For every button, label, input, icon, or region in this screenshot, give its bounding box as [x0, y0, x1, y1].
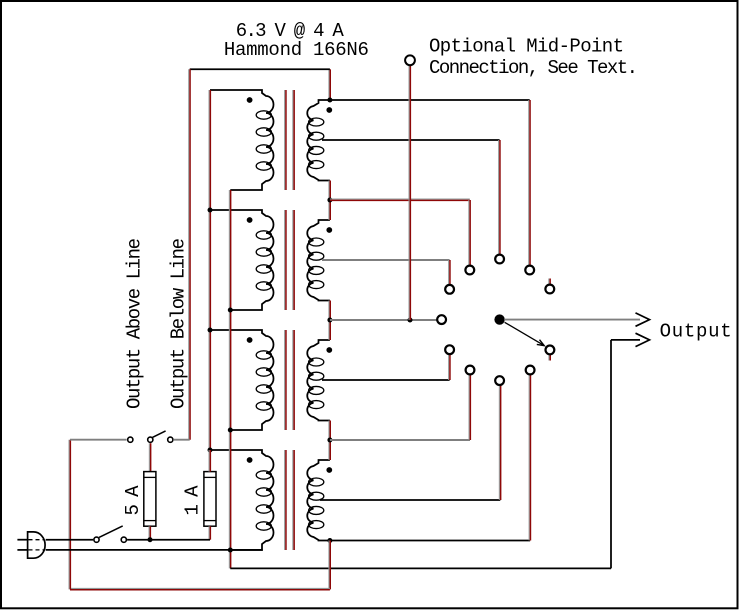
wire output line 2 vertical (x=611)	[610, 340, 612, 569]
transformer T1 secondary polarity dot	[326, 107, 332, 113]
node T1 secondary top junction	[327, 98, 332, 103]
wire output-above-line vertical (x=189.7)	[188, 69, 190, 439]
wire contact stub x=470 lower	[468, 374, 470, 440]
fuse F2 1A body	[204, 472, 216, 527]
terminal optional mid-point connection	[405, 55, 415, 65]
wire neutral line plug to T4	[46, 549, 263, 551]
transformer T3 primary winding loops	[256, 351, 271, 410]
transformer T1 primary polarity dot	[247, 97, 253, 103]
switch SW1 contact right	[121, 537, 126, 542]
transformer T2 primary polarity dot	[247, 217, 253, 223]
wire tap line y=100 (T1 top to contact)	[330, 99, 530, 101]
junction bus-A / T2 primary top	[208, 208, 213, 213]
rotary switch SW3 contact 30deg	[545, 285, 554, 294]
switch SW2 common (to fuse F1)	[148, 437, 153, 442]
svg-text:Output Below Line: Output Below Line	[168, 238, 190, 409]
junction bus-B / T3 primary bottom	[228, 428, 233, 433]
svg-text:Hammond 166N6: Hammond 166N6	[224, 39, 369, 61]
wire hot line switch to fuses	[127, 539, 210, 541]
transformer T4 primary winding	[210, 450, 274, 550]
wire T1 secondary top to top rail	[328, 69, 330, 100]
wire output line 1 (from SW3 common)	[504, 319, 640, 321]
transformer T1 secondary winding loops	[309, 118, 324, 169]
wire below-line vertical (x=70)	[68, 440, 70, 590]
rotary switch SW3 wiper arrow	[505, 322, 545, 345]
wire selector left feed	[70, 439, 127, 441]
rotary switch SW3 common pole	[494, 314, 504, 324]
wire fuse F2 bottom stub	[208, 526, 210, 540]
wire dead-end stub 30-deg contact	[548, 279, 550, 285]
rotary switch SW3 contact 120deg	[465, 266, 474, 275]
transformer T2 core	[285, 210, 295, 310]
transformer T3 secondary winding	[307, 340, 330, 421]
arrow output 2	[636, 333, 650, 346]
switch SW1 contact left	[94, 537, 99, 542]
rotary switch SW3 contact 330deg	[546, 346, 555, 355]
wire contact stub x=529.7	[528, 100, 530, 266]
wire hot line plug to switch SW1	[46, 539, 93, 541]
junction bus-B / T2 primary bottom	[228, 308, 233, 313]
transformer T4 primary polarity dot	[247, 457, 253, 463]
wire fuse F2 top stub	[208, 450, 210, 472]
plug P1 prong bottom hidden	[29, 549, 44, 551]
svg-text:Output: Output	[660, 321, 732, 343]
wire contact stub x=499.6 upper	[498, 140, 500, 255]
transformer T3 secondary winding loops	[309, 358, 324, 409]
wire below-line bottom run y=589.4	[70, 587, 330, 589]
wire dead-end stub 330-deg contact	[548, 355, 550, 361]
svg-text:5 A: 5 A	[122, 485, 144, 516]
rotary switch SW3 contact 150deg	[445, 285, 454, 294]
wire contact stub x=449.6 upper	[448, 260, 450, 285]
transformer T4 secondary winding	[307, 460, 330, 541]
arrow output 1	[636, 313, 650, 326]
wire tap line y=200 (T1/T2 junction)	[330, 198, 470, 200]
wire output line 2 horizontal	[611, 339, 640, 341]
wire fuse F1 bottom stub	[148, 526, 150, 540]
transformer T2 secondary winding loops	[309, 238, 324, 289]
switch SW2 contact left (output below line)	[128, 437, 133, 442]
node T3/T4 secondary junction	[327, 438, 332, 443]
node T4 secondary bottom junction	[327, 538, 332, 543]
wire tap line y=540.5 (T4 bottom)	[330, 540, 530, 542]
node T1/T2 secondary junction	[327, 198, 332, 203]
transformer T3 primary winding	[210, 330, 274, 430]
wire T3-T4 secondary link	[328, 421, 330, 461]
transformer T1 primary winding	[210, 90, 274, 190]
plug P1 prong bottom	[17, 549, 27, 551]
transformer T2 primary winding	[210, 210, 274, 310]
wire T1-T2 secondary link	[328, 181, 330, 221]
transformer T1 core	[285, 90, 295, 190]
switch SW2 contact right (output above line)	[168, 437, 173, 442]
svg-text:Output Above Line: Output Above Line	[124, 238, 146, 409]
junction bus-A / T3 primary top	[208, 328, 213, 333]
wire tap line y=320 (mid-point to contact)	[330, 319, 438, 321]
svg-text:Connection, See Text.: Connection, See Text.	[429, 57, 638, 79]
rotary switch SW3 contact 210deg	[445, 345, 454, 354]
wire tap line y=500 (T4 mid tap)	[320, 499, 500, 501]
wire primary return bus (maroon vertical x=230.3)	[228, 190, 230, 568]
wire contact stub x=530.1 lower	[528, 374, 530, 540]
wire primary feed bus (maroon vertical x=210)	[208, 90, 210, 450]
transformer T3 core	[285, 330, 295, 430]
rotary switch SW3 contact 240deg	[466, 366, 475, 375]
junction mid-point terminal wire	[408, 318, 413, 323]
wire tap line y=380 (T3 mid tap)	[322, 379, 450, 381]
wire contact stub x=449.6 lower	[448, 354, 450, 380]
transformer T4 secondary winding loops	[309, 478, 324, 529]
svg-text:Optional Mid-Point: Optional Mid-Point	[429, 35, 624, 57]
rotary switch SW3 contact 90deg	[495, 255, 504, 264]
rotary switch SW3 contact 270deg	[495, 376, 504, 385]
transformer T3 primary polarity dot	[247, 337, 253, 343]
transformer T2 secondary polarity dot	[326, 227, 332, 233]
plug P1 prong top	[17, 539, 27, 541]
wire top rail (T1 top to output selector)	[190, 68, 330, 70]
switch SW2 blade	[152, 431, 165, 438]
wire tap line y=440 (T3/T4 junction)	[330, 439, 470, 441]
transformer T1 primary winding loops	[256, 111, 271, 170]
svg-text:1 A: 1 A	[182, 485, 204, 516]
rotary switch SW3 contact 180deg	[437, 315, 446, 324]
plug P1 prong top hidden	[29, 539, 44, 541]
switch SW1 blade	[99, 526, 123, 538]
node T2/T3 secondary junction (mid-point)	[327, 318, 332, 323]
transformer T2 primary winding loops	[256, 231, 271, 290]
junction bus-B / plug neutral line	[228, 548, 233, 553]
wire below-line vertical (x=329.9)	[328, 541, 330, 590]
transformer T4 secondary polarity dot	[326, 467, 332, 473]
wire tap line y=140 (T1 mid tap)	[322, 139, 500, 141]
wire SW2 common to fuse F1	[148, 443, 150, 471]
fuse F1 5A body	[144, 472, 156, 527]
wire selector right feed	[174, 439, 190, 441]
transformer T2 secondary winding	[307, 220, 330, 301]
wire T2-T3 secondary link	[328, 301, 330, 341]
transformer T3 secondary polarity dot	[326, 347, 332, 353]
wire output line 2 bottom run	[230, 567, 611, 569]
transformer T1 secondary winding	[307, 100, 330, 181]
wire contact stub x=469.8 upper	[468, 200, 470, 266]
wire tap line y=260 (T2 mid tap)	[322, 259, 450, 261]
rotary switch SW3 contact 300deg	[526, 366, 535, 375]
junction bus-A / T4 primary top / fuse F2	[208, 448, 213, 453]
wire optional mid-point vertical	[408, 65, 410, 320]
plug P1 body	[28, 532, 45, 558]
junction fuse F1 / line	[148, 537, 153, 542]
transformer T4 primary winding loops	[256, 471, 271, 530]
transformer T4 core	[285, 450, 295, 550]
wire contact stub x=500.3 lower	[498, 385, 500, 500]
rotary switch SW3 contact 60deg	[525, 266, 534, 275]
